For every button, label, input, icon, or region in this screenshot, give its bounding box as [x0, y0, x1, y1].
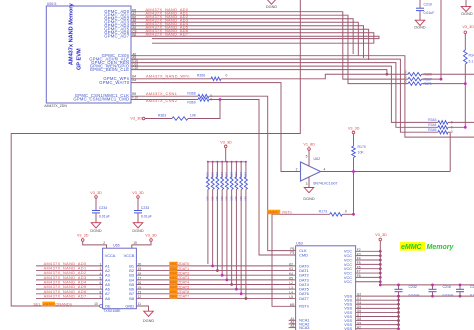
svg-text:V3_3D: V3_3D — [348, 127, 360, 131]
svg-text:GP EVM: GP EVM — [77, 48, 83, 70]
svg-text:L4: L4 — [289, 290, 293, 294]
svg-text:Memory: Memory — [427, 244, 455, 251]
svg-text:AM437X_CSN1: AM437X_CSN1 — [146, 92, 177, 96]
svg-text:DGND: DGND — [461, 12, 472, 16]
svg-text:AM437X_NAND_WPn: AM437X_NAND_WPn — [146, 75, 190, 79]
svg-text:P5: P5 — [290, 247, 294, 251]
svg-text:ONANDn: ONANDn — [55, 302, 72, 306]
svg-text:0: 0 — [405, 79, 407, 83]
svg-text:R344: R344 — [428, 123, 436, 127]
svg-text:C233: C233 — [141, 206, 149, 210]
svg-text:AM437X_NAND_AD2: AM437X_NAND_AD2 — [44, 271, 87, 275]
svg-text:R357: R357 — [220, 171, 224, 178]
svg-text:V3_3D: V3_3D — [375, 233, 387, 237]
svg-text:GPMC_CSN2/MMC1_CMD: GPMC_CSN2/MMC1_CMD — [73, 97, 129, 102]
svg-text:AM437x NAND Memory: AM437x NAND Memory — [69, 2, 75, 65]
svg-text:10: 10 — [94, 302, 98, 306]
svg-text:R34: R34 — [469, 54, 474, 58]
svg-text:L5: L5 — [289, 295, 293, 299]
svg-text:DGND: DGND — [90, 229, 101, 233]
svg-text:5: 5 — [306, 155, 308, 159]
svg-text:M5: M5 — [290, 303, 295, 307]
svg-text:U65: U65 — [113, 244, 120, 248]
svg-text:C234: C234 — [99, 206, 107, 210]
svg-text:OE: OE — [105, 304, 111, 309]
svg-text:K4: K4 — [289, 272, 293, 276]
svg-text:B8: B8 — [129, 296, 134, 301]
svg-text:R357: R357 — [206, 171, 210, 178]
svg-text:V3_3D: V3_3D — [462, 25, 474, 29]
svg-text:V3_3D: V3_3D — [77, 234, 89, 238]
svg-text:R363: R363 — [158, 113, 166, 117]
svg-text:0: 0 — [345, 210, 347, 214]
svg-text:AM437X_NAND_AD7: AM437X_NAND_AD7 — [44, 294, 87, 298]
svg-text:eMMC: eMMC — [43, 302, 55, 306]
svg-text:VCCA: VCCA — [105, 253, 116, 258]
svg-text:V1_8D: V1_8D — [303, 143, 315, 147]
svg-text:VSS: VSS — [344, 326, 352, 330]
svg-text:0.01uF: 0.01uF — [409, 293, 420, 297]
svg-text:C232: C232 — [409, 285, 417, 289]
svg-text:NCA3: NCA3 — [299, 325, 309, 330]
svg-text:AM437X_NAND_AD0: AM437X_NAND_AD0 — [44, 262, 87, 266]
svg-text:5.1: 5.1 — [469, 60, 474, 64]
svg-text:C219: C219 — [424, 2, 432, 6]
svg-text:DGND: DGND — [143, 319, 154, 323]
svg-text:_DAT6: _DAT6 — [177, 290, 189, 294]
svg-text:0.01uF: 0.01uF — [99, 215, 110, 219]
svg-text:_RSTn: _RSTn — [279, 210, 291, 214]
svg-text:DAT7: DAT7 — [299, 296, 309, 301]
svg-text:R173: R173 — [319, 209, 327, 213]
svg-text:R357: R357 — [215, 171, 219, 178]
svg-text:CMD: CMD — [299, 252, 308, 257]
svg-text:K3: K3 — [289, 267, 293, 271]
svg-text:R357: R357 — [225, 171, 229, 178]
svg-text:_DAT5: _DAT5 — [177, 285, 189, 289]
svg-text:R357: R357 — [239, 171, 243, 178]
svg-text:SN74LVC1G07: SN74LVC1G07 — [313, 182, 338, 186]
svg-text:R368: R368 — [187, 91, 195, 95]
svg-text:GND: GND — [125, 304, 134, 309]
svg-text:V3_3D: V3_3D — [145, 234, 157, 238]
svg-text:TXS0108E: TXS0108E — [103, 309, 121, 313]
svg-text:R357: R357 — [234, 171, 238, 178]
svg-text:10K: 10K — [358, 151, 365, 155]
svg-text:L3: L3 — [289, 286, 293, 290]
svg-text:U62: U62 — [314, 157, 321, 161]
svg-text:R369: R369 — [187, 101, 195, 105]
svg-text:R356: R356 — [197, 74, 205, 78]
svg-text:0.01uF: 0.01uF — [470, 293, 474, 297]
svg-text:DGND: DGND — [266, 5, 277, 9]
svg-text:V3_3D: V3_3D — [90, 191, 102, 195]
svg-text:AM437X_CSN2: AM437X_CSN2 — [146, 99, 177, 103]
svg-text:10K: 10K — [190, 113, 197, 117]
svg-text:DGND: DGND — [414, 26, 425, 30]
svg-text:R357: R357 — [244, 171, 248, 178]
svg-text:P3: P3 — [290, 251, 294, 255]
svg-text:U63: U63 — [296, 242, 303, 246]
svg-text:AM437X_NAND_AD1: AM437X_NAND_AD1 — [44, 267, 87, 271]
svg-text:0: 0 — [226, 74, 228, 78]
svg-text:eMMC: eMMC — [401, 244, 423, 251]
svg-text:GPMC_BE0N_CLE: GPMC_BE0N_CLE — [90, 67, 130, 72]
svg-text:_DAT1: _DAT1 — [177, 267, 189, 271]
svg-text:3: 3 — [306, 182, 308, 186]
svg-text:RSTn: RSTn — [299, 304, 309, 309]
svg-text:U59.5: U59.5 — [47, 2, 57, 6]
svg-text:GPMC_WAIT0: GPMC_WAIT0 — [99, 80, 129, 85]
svg-text:A8: A8 — [105, 296, 110, 301]
svg-text:0.01uF: 0.01uF — [141, 215, 152, 219]
svg-text:R357: R357 — [210, 171, 214, 178]
svg-text:R343: R343 — [428, 118, 436, 122]
svg-text:4: 4 — [324, 167, 326, 171]
svg-text:_DAT4: _DAT4 — [177, 281, 189, 285]
svg-text:_DAT0: _DAT0 — [177, 262, 189, 266]
svg-text:R170: R170 — [358, 145, 366, 149]
svg-text:V3_3D: V3_3D — [132, 191, 144, 195]
svg-text:11: 11 — [138, 302, 142, 306]
svg-text:AM437X_ZDN: AM437X_ZDN — [44, 104, 67, 108]
svg-text:L2: L2 — [289, 281, 293, 285]
svg-text:R345: R345 — [428, 128, 436, 132]
svg-text:0.01uF: 0.01uF — [424, 11, 435, 15]
svg-text:AM437X_NAND_AD5: AM437X_NAND_AD5 — [44, 285, 87, 289]
svg-text:K5: K5 — [289, 276, 293, 280]
svg-text:AM437X_NAND_AD4: AM437X_NAND_AD4 — [44, 281, 87, 285]
svg-text:0: 0 — [451, 130, 453, 134]
svg-text:0: 0 — [405, 75, 407, 79]
svg-text:VCCB: VCCB — [124, 253, 135, 258]
svg-text:AM437X_NAND_AD6: AM437X_NAND_AD6 — [44, 290, 87, 294]
svg-text:_DAT7: _DAT7 — [177, 295, 189, 299]
svg-text:V3_3D: V3_3D — [220, 140, 232, 144]
svg-text:C216: C216 — [443, 285, 451, 289]
svg-text:_DAT2: _DAT2 — [177, 271, 189, 275]
svg-text:2: 2 — [296, 167, 298, 171]
svg-text:R357: R357 — [229, 171, 233, 178]
svg-text:AM437X_NAND_AD3: AM437X_NAND_AD3 — [44, 276, 87, 280]
svg-text:VCC: VCC — [344, 279, 352, 284]
svg-text:0: 0 — [405, 70, 407, 74]
svg-text:C21: C21 — [470, 285, 474, 289]
svg-text:K2: K2 — [289, 263, 293, 267]
svg-text:0.01uF: 0.01uF — [443, 293, 454, 297]
svg-text:GPMC_AD7: GPMC_AD7 — [104, 33, 129, 38]
svg-text:DGND: DGND — [132, 229, 143, 233]
svg-text:V3_3D: V3_3D — [130, 117, 142, 121]
svg-text:_DAT3: _DAT3 — [177, 276, 189, 280]
svg-text:DGND: DGND — [303, 197, 314, 201]
svg-text:EMMC: EMMC — [268, 210, 279, 214]
svg-text:2: 2 — [103, 241, 105, 245]
svg-text:19: 19 — [133, 241, 137, 245]
